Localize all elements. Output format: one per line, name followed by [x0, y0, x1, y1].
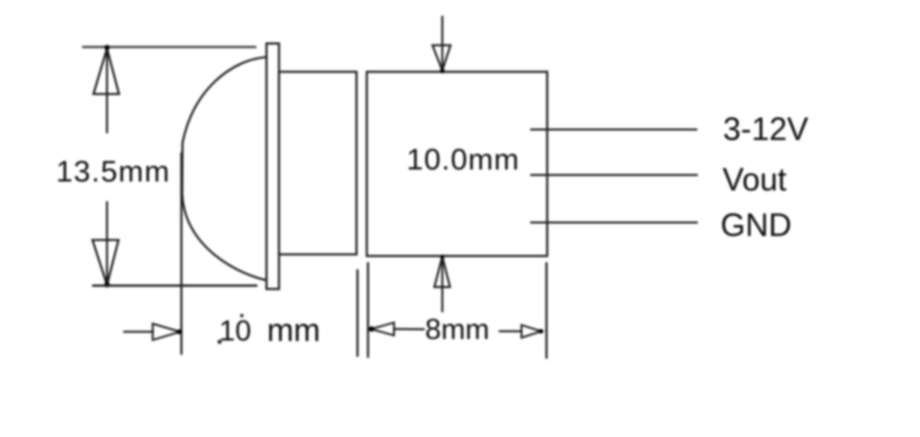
- dome lens arc: [182, 57, 267, 280]
- 8mm right arrow tip dot: [539, 329, 544, 334]
- svg-text:13.5mm: 13.5mm: [56, 156, 170, 189]
- 13.5mm arrow tip dot: [104, 45, 109, 50]
- 10 mm dimension extension line (dome tip): [180, 153, 182, 354]
- lead wire GND: [531, 221, 697, 223]
- svg-text:Vout: Vout: [723, 162, 787, 198]
- 10.0mm bottom arrowhead (open, pointing up): [434, 257, 450, 288]
- cylinder body: [279, 72, 357, 255]
- 8mm left arrowhead (pointing left): [371, 323, 394, 336]
- lead wire Vout: [531, 174, 697, 176]
- dimension bottom reference line (13.5mm): [93, 285, 257, 287]
- 8mm left arrow shaft: [394, 328, 424, 330]
- 8mm extension line (box left edge): [367, 263, 369, 357]
- 10.0mm bottom arrow tip dot: [440, 255, 444, 259]
- 10 mm dimension arrow shaft: [124, 331, 153, 333]
- svg-text:3-12V: 3-12V: [723, 111, 809, 147]
- 13.5mm lower arrow tip dot: [104, 282, 109, 287]
- 10.0mm top arrow tip dot: [440, 69, 445, 74]
- 10.0mm top arrow shaft: [441, 17, 443, 70]
- 8mm right arrow shaft: [500, 330, 522, 332]
- 13.5mm upper arrowhead (open, pointing up): [94, 49, 120, 95]
- stray dot above 0: [240, 314, 243, 317]
- 10 mm dimension arrowhead (pointing right): [153, 324, 180, 340]
- svg-text:mm: mm: [267, 312, 320, 348]
- 13.5mm lower arrow shaft: [106, 202, 108, 284]
- 8mm left arrow tip dot: [369, 326, 374, 331]
- svg-text:8mm: 8mm: [425, 314, 489, 346]
- 10.0mm bottom arrow shaft: [441, 257, 443, 312]
- svg-text:10: 10: [219, 316, 251, 348]
- 8mm right arrowhead (pointing right): [522, 325, 542, 338]
- dimension top reference line (13.5mm): [83, 46, 256, 48]
- flange: [267, 44, 280, 290]
- 10 mm arrow tip dot: [177, 329, 182, 334]
- stray dot before 10: [218, 340, 222, 344]
- svg-text:GND: GND: [721, 207, 792, 243]
- 13.5mm upper arrow shaft: [106, 48, 108, 133]
- 10.0mm top arrowhead (open, pointing down): [433, 45, 451, 70]
- 8mm extension line (box right edge): [545, 263, 547, 358]
- 13.5mm lower arrowhead (open, pointing down): [93, 240, 119, 285]
- svg-text:10.0mm: 10.0mm: [407, 143, 520, 176]
- 8mm extension line (cylinder right edge): [356, 270, 358, 356]
- lead wire 3-12V: [531, 128, 697, 130]
- main body box: [367, 72, 547, 256]
